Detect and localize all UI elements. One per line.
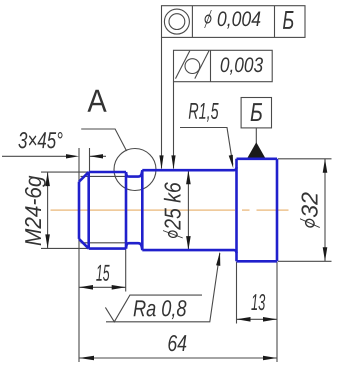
chamfer bottom	[79, 239, 89, 249]
3x45 dimension line	[2, 155, 68, 157]
chamfer top	[79, 172, 89, 182]
64/13 extension right x277	[276, 262, 278, 362]
text: dim 64	[168, 335, 186, 351]
M24 dimension line	[47, 172, 49, 248]
d32 arrows	[323, 159, 328, 173]
15 arrows	[79, 285, 93, 290]
A leader	[81, 129, 126, 151]
cylindricity symbol	[185, 59, 200, 74]
groove bottom profile	[126, 243, 142, 250]
text: radius text	[189, 103, 219, 122]
R1,5 leader	[180, 128, 233, 165]
text: frame1 value	[204, 10, 260, 29]
leader from frame1	[161, 37, 163, 168]
text: frame2 value	[221, 57, 263, 74]
64 arrows	[79, 356, 94, 361]
Ra leader	[106, 253, 220, 322]
extension line at chamfer x89.5	[89, 148, 91, 171]
text: dim 15	[96, 265, 109, 281]
thread bottom edge	[89, 247, 126, 250]
d25 arrows	[186, 170, 191, 184]
frame1 leader arrow	[159, 155, 163, 169]
collar right face	[276, 159, 279, 261]
thread top edge	[89, 171, 126, 174]
collar top edge	[237, 158, 278, 161]
text: dim d32	[300, 192, 320, 228]
tolerance frame 1 (concentricity)	[162, 6, 306, 38]
Ra leader arrow	[216, 252, 220, 266]
part outline (blue)	[79, 159, 277, 261]
M24 extension lines	[41, 171, 88, 173]
d32 extension lines	[278, 158, 332, 160]
13 arrows	[237, 317, 251, 322]
collar bottom edge	[237, 260, 278, 263]
Ra roughness symbol	[105, 295, 202, 322]
text: frame1 datum	[283, 11, 294, 29]
concentricity symbol	[164, 9, 189, 34]
d25 top edge with fillet R1,5	[142, 167, 236, 170]
groove top profile	[126, 170, 142, 176]
13 dimension line	[237, 318, 278, 320]
extension line at left end face x79	[78, 148, 80, 362]
15 dim extension right	[125, 249, 127, 292]
tolerance frame 2 (cylindricity)	[174, 50, 273, 81]
chamfer vertical	[87, 172, 90, 249]
3x45 arrows	[66, 154, 79, 158]
detail circle A	[114, 149, 156, 191]
d25 bottom edge with fillet	[142, 250, 236, 253]
collar left face	[235, 159, 238, 261]
centerline (part axis)	[51, 209, 289, 211]
datum box	[241, 98, 271, 144]
R1,5 leader arrow	[229, 155, 234, 169]
d25 dimension line	[187, 170, 189, 250]
M24 arrows	[45, 172, 50, 186]
end face	[78, 182, 81, 239]
d32 dimension line	[324, 159, 326, 261]
text: roughness	[134, 300, 187, 319]
thread minor diameter thin lines	[81, 175, 127, 177]
text: chamfer text	[18, 132, 62, 148]
64 dimension line	[79, 357, 277, 359]
arrowheads	[45, 154, 327, 360]
15 dimension line	[79, 286, 126, 288]
text: datum letter	[251, 103, 263, 121]
datum triangle	[247, 142, 265, 158]
text: dim d25k6	[163, 182, 183, 238]
groove right wall	[141, 170, 144, 250]
text: dim M24-6g	[25, 176, 46, 246]
frame2 leader arrow	[171, 155, 175, 169]
13 extension left x236.5	[236, 262, 238, 324]
text: dim 13	[251, 294, 265, 310]
groove left wall	[125, 172, 128, 249]
leader from frame2	[173, 82, 175, 169]
text: view label A	[87, 90, 106, 112]
